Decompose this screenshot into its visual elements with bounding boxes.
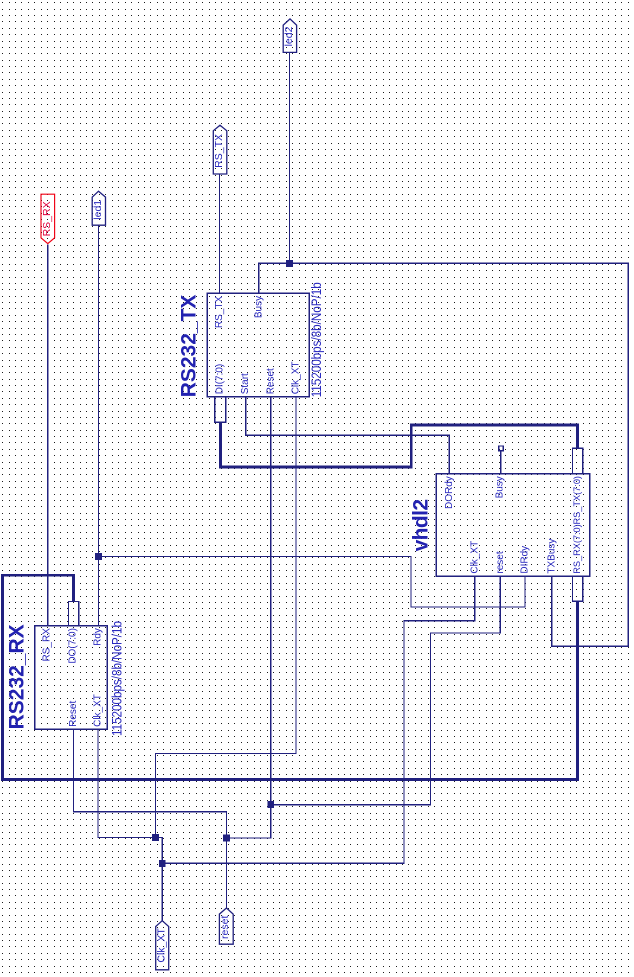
svg-text:115200bps/8b/NoP/1b: 115200bps/8b/NoP/1b [308, 282, 324, 397]
svg-text:RS_RX: RS_RX [41, 201, 53, 236]
svg-text:RS232_RX: RS232_RX [6, 624, 29, 729]
svg-text:DI(7:0): DI(7:0) [215, 364, 226, 395]
svg-text:led1: led1 [92, 200, 104, 220]
svg-text:RS232_TX: RS232_TX [178, 295, 201, 398]
svg-text:RS_TX: RS_TX [213, 134, 225, 168]
svg-text:Clk_XT: Clk_XT [469, 541, 480, 574]
svg-text:115200bps/8b/NoP/1b: 115200bps/8b/NoP/1b [109, 621, 125, 736]
svg-text:DIRdy: DIRdy [520, 546, 531, 574]
svg-text:reset: reset [495, 551, 506, 573]
svg-text:Clk_XT: Clk_XT [155, 928, 167, 963]
svg-text:TXBusy: TXBusy [546, 539, 557, 574]
svg-text:RS_TX(7:0): RS_TX(7:0) [572, 476, 582, 525]
svg-text:vhdl2: vhdl2 [409, 500, 432, 552]
svg-text:led2: led2 [283, 26, 295, 46]
svg-text:RS_RX(7:0): RS_RX(7:0) [572, 524, 582, 574]
svg-text:Rdy: Rdy [93, 628, 104, 646]
svg-text:Start: Start [240, 373, 251, 394]
svg-text:DORdy: DORdy [444, 476, 455, 509]
svg-text:Clk_XT: Clk_XT [291, 362, 302, 395]
svg-text:RS_TX: RS_TX [214, 296, 225, 329]
svg-text:Busy: Busy [253, 296, 264, 318]
svg-text:reset: reset [219, 916, 231, 939]
svg-text:DO(7:0): DO(7:0) [68, 628, 79, 664]
svg-text:RS_RX: RS_RX [42, 628, 53, 662]
svg-text:Busy: Busy [494, 476, 505, 498]
svg-text:Reset: Reset [265, 368, 276, 394]
svg-text:Clk_XT: Clk_XT [93, 694, 104, 727]
svg-text:Reset: Reset [68, 701, 79, 727]
